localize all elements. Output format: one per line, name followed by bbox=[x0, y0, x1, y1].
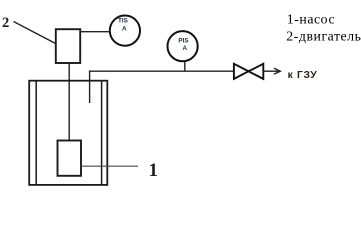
leader wire from pump to label 1 bbox=[81, 165, 138, 167]
svg-text:к ГЗУ: к ГЗУ bbox=[288, 70, 318, 81]
svg-text:A: A bbox=[122, 25, 127, 32]
svg-text:2: 2 bbox=[2, 15, 9, 31]
gauge TIS circle bbox=[110, 16, 140, 46]
svg-text:PIS: PIS bbox=[178, 38, 188, 45]
gauge PIS circle bbox=[168, 31, 198, 61]
leader wire from label 2 to motor bbox=[14, 22, 57, 45]
valve V1 bbox=[234, 64, 263, 79]
motor M2 rectangle bbox=[56, 29, 80, 63]
tank outer rectangle bbox=[29, 81, 107, 185]
tank inner right wall bbox=[101, 81, 103, 186]
tank inner left wall bbox=[35, 81, 37, 186]
wire PIS gauge to pipe bbox=[184, 62, 186, 71]
pump P1 rectangle bbox=[58, 141, 82, 176]
suction pipe drop into tank bbox=[89, 71, 91, 103]
svg-text:TIS: TIS bbox=[118, 18, 128, 25]
svg-text:1-насос: 1-насос bbox=[287, 12, 335, 27]
flow arrow to GZU bbox=[263, 68, 280, 74]
wire motor to TIS gauge bbox=[81, 31, 110, 33]
svg-text:2-двигатель: 2-двигатель bbox=[286, 29, 361, 44]
svg-text:A: A bbox=[183, 45, 188, 52]
shaft wire motor to pump bbox=[68, 63, 70, 140]
discharge pipe bbox=[89, 70, 234, 72]
svg-text:1: 1 bbox=[149, 161, 158, 181]
